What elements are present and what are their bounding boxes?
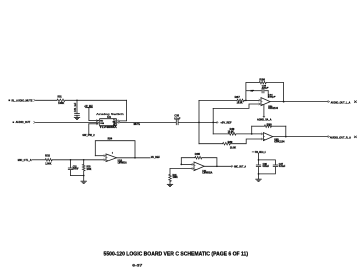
feedback wire top A	[246, 81, 284, 84]
wire R37 to U8A	[244, 99, 259, 102]
pin chevron U9 right IN	[117, 120, 120, 122]
wire bias to U8A plus	[213, 104, 259, 108]
svg-text:MIC_OUT_A: MIC_OUT_A	[234, 165, 246, 168]
svg-text:10.0K: 10.0K	[230, 148, 237, 150]
svg-text:1.00K: 1.00K	[45, 162, 51, 165]
svg-text:5500-120 LOGIC BOARD VER C SCH: 5500-120 LOGIC BOARD VER C SCHEMATIC (PA…	[104, 251, 249, 257]
junction node C30 tap	[76, 99, 78, 101]
wire mute control	[120, 100, 127, 121]
svg-text:R38: R38	[267, 123, 273, 126]
capacitor C30	[74, 100, 80, 115]
port MIC_OUT_A	[232, 165, 247, 168]
pin chevron U9 right NO	[117, 121, 121, 123]
feedback wire stage1	[95, 138, 135, 158]
wire R32 to U10	[52, 159, 104, 161]
capacitor C31	[68, 160, 79, 176]
wire AUDIO_OUT to U9	[36, 121, 97, 124]
svg-text:0.01uF: 0.01uF	[279, 166, 286, 168]
resistor R40	[228, 128, 236, 135]
svg-text:6-37: 6-37	[132, 263, 143, 268]
svg-text:0.01uF: 0.01uF	[263, 166, 270, 168]
port RL_AUDIO_MUTE	[9, 99, 36, 103]
svg-text:R36: R36	[259, 79, 265, 82]
svg-text:AUDIO_OUT: AUDIO_OUT	[16, 120, 31, 124]
feedback wire stage2	[181, 154, 217, 167]
wire U9 out to C35	[120, 122, 176, 125]
wire U8B output	[273, 135, 328, 138]
ground C30	[74, 115, 79, 119]
junction split node	[198, 122, 200, 124]
wire to R37	[199, 99, 237, 102]
wire U11 plus	[170, 169, 192, 175]
resistor R38	[264, 123, 272, 127]
svg-text:R35: R35	[195, 154, 201, 156]
wire bias vertical	[212, 108, 215, 133]
feedback left vertical B	[251, 126, 253, 135]
svg-text:COM: COM	[100, 123, 104, 125]
junction bias node	[212, 122, 214, 124]
power 5V0_ANLG_A	[252, 150, 266, 154]
title text	[104, 251, 249, 257]
power +5V_REF mid	[213, 120, 232, 124]
resistor R39	[223, 142, 237, 150]
svg-text:MUTE: MUTE	[134, 124, 141, 126]
wire R31 to corner	[65, 99, 127, 102]
power stub U8A	[257, 105, 272, 121]
capacitor C37 branch	[259, 160, 286, 174]
svg-text:0.1uF: 0.1uF	[174, 118, 181, 121]
svg-text:100K: 100K	[173, 177, 179, 179]
ground R41	[167, 182, 172, 187]
wire C35 to node	[179, 121, 213, 124]
wire R40 to U8B minus	[236, 132, 261, 135]
capacitor C36	[256, 164, 269, 168]
resistor R36	[259, 79, 266, 84]
op-amp U8A	[259, 94, 279, 111]
wire fb to U11 minus	[180, 164, 191, 166]
feedback right vertical A	[283, 83, 285, 103]
feedback left vertical A	[245, 83, 247, 102]
op-amp U10	[104, 153, 127, 165]
page number	[132, 263, 143, 268]
analog switch refdes U9	[107, 115, 111, 119]
wire signal vertical	[197, 100, 200, 143]
svg-text:VA_REF: VA_REF	[151, 156, 160, 159]
op-amp U11	[192, 162, 213, 175]
wire RC join	[71, 175, 85, 181]
feedback wire top B	[252, 125, 286, 128]
wire U11 output	[204, 165, 231, 167]
capacitor C33	[251, 86, 270, 93]
svg-text:RL_AUDIO_MUTE: RL_AUDIO_MUTE	[12, 99, 33, 103]
analog switch title	[96, 112, 124, 116]
svg-text:100K: 100K	[87, 169, 92, 171]
svg-text:C37: C37	[279, 164, 284, 166]
wire cap rail	[258, 153, 260, 179]
feedback right vertical B	[285, 126, 287, 137]
port AUDIO_OUT_L_A	[328, 100, 357, 104]
wire R39 to U8B plus	[230, 139, 261, 144]
svg-text:C30 .1uF: C30 .1uF	[74, 102, 77, 112]
svg-text:R37: R37	[235, 96, 241, 99]
svg-text:10.0K: 10.0K	[237, 102, 243, 104]
pin chevron U9 left V+	[97, 120, 100, 122]
capacitor C35	[174, 115, 181, 125]
svg-text:AGND_VA_A: AGND_VA_A	[257, 118, 272, 121]
wire U8A output	[270, 101, 328, 103]
svg-text:C36: C36	[263, 164, 268, 166]
wire MIC to R32	[32, 158, 45, 161]
wire U10 output	[117, 157, 151, 159]
svg-text:C35: C35	[174, 115, 179, 118]
port AUDIO_OUT_R_A	[328, 135, 357, 139]
svg-text:1: 1	[112, 153, 113, 155]
resistor R32	[45, 155, 52, 166]
resistor R37	[235, 96, 245, 105]
power +5V_REF left	[84, 104, 93, 121]
resistor R31	[57, 96, 65, 105]
svg-text:Analog Switch: Analog Switch	[96, 112, 124, 116]
svg-text:R32: R32	[45, 155, 51, 158]
pin chevron U9 left COM	[97, 121, 100, 123]
wire bias to R40	[213, 132, 228, 135]
svg-text:220pF: 220pF	[262, 88, 269, 90]
svg-text:10.0K: 10.0K	[228, 132, 235, 134]
port AUDIO_OUT	[13, 120, 36, 124]
svg-text:NO: NO	[100, 120, 103, 122]
port MIC_CTL_A	[18, 158, 32, 162]
svg-text:100pF: 100pF	[268, 97, 276, 99]
resistor R33	[82, 160, 91, 176]
resistor R35	[195, 156, 202, 159]
resistor R41	[169, 174, 178, 182]
wire RL_AUDIO_MUTE to R31	[36, 99, 57, 102]
svg-text:R31: R31	[58, 96, 63, 99]
label SW_PW_2	[82, 133, 95, 137]
wire +5V to switch pin	[89, 119, 99, 122]
svg-text:100K: 100K	[58, 102, 64, 105]
feedback cap branch A	[246, 91, 268, 98]
ground stage1 RC	[81, 181, 86, 183]
ground cap rail	[256, 179, 261, 181]
svg-text:C31: C31	[73, 167, 78, 169]
label VA_REF	[151, 156, 160, 159]
analog switch part number	[100, 125, 117, 129]
wire signal to R39	[199, 142, 223, 145]
svg-text:R33: R33	[87, 167, 92, 169]
analog switch U9 body	[99, 119, 116, 127]
wire U9 GND to SW_PW_2	[89, 123, 98, 134]
op-amp U8B	[261, 133, 285, 144]
wire fb to U10 minus	[95, 154, 104, 157]
